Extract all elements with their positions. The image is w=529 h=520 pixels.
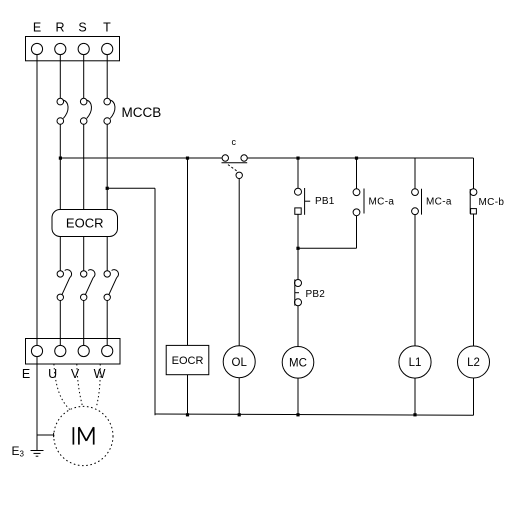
lamp L1 — [399, 346, 431, 378]
svg-text:E: E — [22, 367, 30, 381]
wire OL to bus — [238, 378, 240, 416]
wire T (MCCB to EOCR) — [106, 124, 108, 209]
wire S (MCCB to EOCR) — [83, 124, 85, 209]
wire R (TB1 to MCCB) — [59, 55, 61, 99]
wire OL branch (switch c to OL) — [238, 179, 240, 346]
motor lead U (dotted) — [54, 364, 70, 410]
svg-text:V: V — [71, 367, 80, 381]
wire R (contact to TB2) — [59, 301, 61, 346]
contactor MC main contact pole T — [104, 270, 119, 301]
svg-text:R: R — [55, 21, 64, 35]
wire S (contact to TB2) — [83, 301, 85, 346]
terminal TB1-R — [55, 43, 66, 54]
terminal TB2-V — [78, 345, 89, 356]
relay EOCR (power block) — [52, 210, 118, 237]
wire EOCR coil branch upper — [187, 158, 189, 345]
wire L2 to bus — [473, 378, 475, 415]
wire MC-a2 to L1 — [414, 215, 416, 346]
svg-text:EOCR: EOCR — [66, 216, 104, 231]
overload relay contact OL — [223, 346, 255, 378]
junction dot (MC-a1 / control line) — [355, 157, 358, 160]
pushbutton PB2 (NC) — [295, 279, 302, 305]
wire bottom bus — [155, 414, 474, 415]
contact MC-b (lamp L2, NC) — [470, 189, 477, 214]
svg-text:U: U — [48, 367, 57, 381]
wire tap horizontal (T to left control branch) — [107, 187, 155, 189]
svg-text:PB2: PB2 — [306, 289, 326, 300]
wire PB1 branch upper — [297, 158, 299, 188]
terminal TB2-W — [102, 345, 113, 356]
wire PB2 to MC coil — [297, 306, 299, 347]
svg-text:MC-b: MC-b — [479, 197, 505, 208]
wire MC-a1 upper — [356, 158, 358, 189]
wire S (EOCR to MC contact) — [83, 237, 85, 271]
svg-text:E: E — [33, 21, 41, 35]
wire E vertical (TB1 to TB2) — [36, 55, 38, 346]
wire control line right segment — [247, 157, 473, 159]
wire left control branch vertical — [154, 188, 156, 415]
svg-text:L1: L1 — [409, 357, 422, 369]
svg-text:MC-a: MC-a — [369, 197, 395, 208]
terminal block TB1 (power input E R S T) — [26, 37, 120, 61]
circuit breaker MCCB pole T — [104, 98, 115, 124]
wire R (EOCR to MC contact) — [59, 237, 61, 271]
svg-text:EOCR: EOCR — [172, 355, 204, 367]
wire L1 to bus — [414, 378, 416, 415]
junction dot (self-hold) — [296, 247, 299, 250]
wire MC-a1 lower — [356, 216, 358, 249]
junction dot (EOCR coil branch) — [186, 157, 189, 160]
motor lead V (dotted) — [77, 364, 83, 407]
pushbutton PB1 (NO) — [295, 188, 311, 215]
contactor coil MC — [282, 347, 314, 379]
wire MC coil to bus — [297, 378, 299, 415]
svg-text:PB1: PB1 — [315, 196, 335, 207]
wire MC-a2 upper — [414, 158, 416, 189]
ground E3 symbol — [31, 451, 44, 457]
junction dot (PB1 branch / control line) — [296, 157, 299, 160]
circuit breaker MCCB pole S — [80, 98, 91, 124]
wire R (MCCB to EOCR) — [59, 124, 61, 209]
wire T (EOCR to MC contact) — [106, 237, 108, 271]
wire PB2 upper — [297, 248, 299, 279]
junction dot (EOCR / bus) — [186, 413, 189, 416]
wire T (contact to TB2) — [106, 301, 108, 346]
svg-text:c: c — [232, 137, 237, 147]
svg-text:MCCB: MCCB — [122, 105, 162, 120]
motor IM — [54, 406, 113, 465]
svg-text:OL: OL — [232, 357, 248, 369]
svg-text:L2: L2 — [467, 357, 480, 369]
terminal TB1-T — [102, 43, 113, 54]
wire S (TB1 to MCCB) — [83, 55, 85, 99]
junction dot (MC / bus) — [296, 413, 299, 416]
wire E (TB2 to ground) — [36, 357, 38, 451]
relay coil EOCR (control) — [166, 345, 209, 374]
terminal TB2-E — [31, 345, 42, 356]
wire self-hold horizontal — [298, 247, 357, 249]
wire PB1 to self-hold junction — [297, 214, 299, 248]
svg-text:MC-a: MC-a — [426, 197, 452, 208]
junction dot (L1 / bus) — [413, 413, 416, 416]
wire EOCR coil to bus — [187, 375, 189, 416]
svg-text:MC: MC — [289, 358, 307, 370]
wire MC-b upper — [473, 158, 475, 189]
contactor MC main contact pole R — [57, 270, 72, 301]
wire motor earth branch — [37, 433, 54, 437]
lamp L2 — [458, 346, 490, 378]
svg-text:W: W — [94, 367, 106, 381]
contact MC-a (self hold, NO) — [353, 189, 364, 216]
wire T (TB1 to MCCB) — [106, 55, 108, 99]
terminal TB1-E — [31, 43, 42, 54]
wire MC-b to L2 — [473, 214, 475, 346]
junction dot (OL / bus) — [238, 413, 241, 416]
junction dot (R phase / control line) — [59, 157, 62, 160]
terminal block TB2 (motor E U V W) — [26, 339, 121, 365]
terminal TB1-S — [78, 43, 89, 54]
circuit breaker MCCB pole R — [57, 98, 68, 124]
terminal TB2-U — [55, 345, 66, 356]
svg-text:T: T — [103, 21, 111, 35]
svg-text:S: S — [78, 21, 86, 35]
switch c — [222, 155, 248, 179]
contact MC-a (lamp L1, NO) — [412, 189, 422, 215]
motor lead W (dotted) — [96, 364, 100, 408]
wire control line left segment — [60, 157, 222, 159]
contactor MC main contact pole S — [81, 270, 96, 301]
junction dot (T phase / tap line) — [106, 187, 109, 190]
